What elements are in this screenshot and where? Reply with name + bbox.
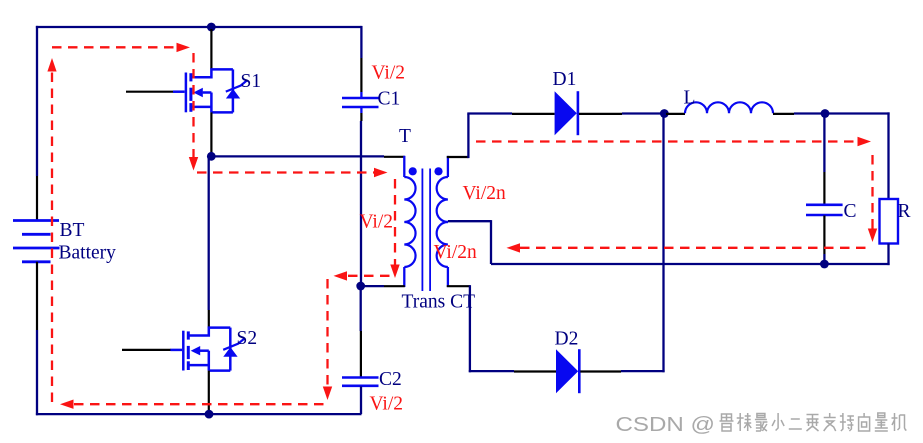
wire: S2 gate lead (black): [122, 349, 171, 351]
wire: secondary bottom lead step (black): [447, 285, 470, 287]
svg-text:D2: D2: [555, 329, 579, 350]
svg-text:S2: S2: [237, 328, 258, 349]
transformer T secondary bottom lead (blue): [447, 267, 449, 287]
current path: down beside C2 (red dashed): [326, 279, 328, 387]
current path: battery rise (red dashed): [51, 70, 53, 402]
svg-text:Vi/2n: Vi/2n: [463, 183, 506, 204]
current path arrow right (to S1): [177, 43, 191, 52]
wire: S1 gate lead (black): [126, 91, 174, 93]
current path arrow down (through R): [868, 229, 877, 243]
wire: left bus lower (navy): [36, 330, 38, 415]
current path: bottom run left (red dashed): [74, 403, 327, 405]
node: output top junction dot: [821, 109, 830, 118]
wire: top bus rail: [36, 26, 362, 28]
wire: center tap lead (navy): [448, 220, 491, 222]
transistor S1 (MOSFET with body diode): [173, 69, 247, 112]
transformer T primary winding: [404, 177, 415, 267]
svg-text:D1: D1: [553, 69, 577, 90]
capacitor C2: [342, 378, 379, 386]
wire: C branch lower (black then navy): [823, 216, 825, 255]
node: output bottom junction dot: [820, 260, 829, 269]
current path arrow down (primary bottom): [390, 265, 399, 279]
transformer T polarity dot (secondary): [434, 167, 442, 175]
wire: mid rail to transformer (black end): [384, 156, 405, 158]
wire: D2 cathode (black then navy): [580, 370, 621, 372]
transformer T secondary winding upper: [437, 177, 448, 222]
diode D1: [555, 91, 577, 135]
transformer T core lines: [421, 169, 423, 292]
current path: top run right (red dashed): [52, 46, 176, 48]
wire: left bus below battery (black): [36, 262, 38, 330]
watermark: CJK glyph approximations: [720, 413, 907, 431]
svg-text:Vi/2: Vi/2: [370, 394, 404, 415]
svg-text:S1: S1: [241, 71, 262, 92]
current path: mid run right (red dashed): [197, 171, 374, 173]
diode D2: [556, 349, 578, 393]
wire: D1 cathode (black then navy): [579, 113, 622, 115]
wire: C1 branch from top rail (navy/black/blue): [360, 26, 362, 58]
current path: secondary out run right (red dashed): [476, 140, 857, 142]
wire: secondary top lead step (black): [447, 156, 469, 158]
wire: S1 source lead (black): [210, 112, 212, 153]
wire: S2 drain lead (black): [208, 310, 210, 328]
wire: mid rail to transformer (navy): [211, 155, 384, 157]
wire: L to output node (black then navy): [773, 113, 794, 115]
capacitor C1: [342, 98, 379, 107]
svg-text:CSDN @: CSDN @: [616, 414, 716, 436]
svg-text:Vi/2: Vi/2: [372, 63, 406, 84]
inductor L: [685, 102, 773, 113]
svg-text:C2: C2: [379, 369, 402, 390]
transformer T primary bottom lead (blue): [403, 267, 405, 287]
current path arrow right (to primary): [374, 168, 388, 177]
wire: bottom bus rail: [36, 413, 362, 415]
transformer T secondary top lead (blue): [447, 156, 449, 177]
resistor R: [880, 199, 899, 244]
svg-text:L: L: [684, 88, 696, 109]
node: capacitor midpoint junction dot: [356, 282, 365, 291]
wire: output bottom rail (navy): [491, 263, 890, 265]
svg-text:C1: C1: [378, 89, 401, 110]
wire: output top rail to R (navy): [825, 112, 890, 114]
wire: S2 drain lead (navy): [208, 158, 210, 310]
wire: S2 source lead (black): [208, 371, 210, 411]
current path arrow left (to cap mid): [334, 271, 348, 280]
svg-text:Vi/2n: Vi/2n: [434, 242, 477, 263]
transistor S2 (MOSFET with body diode): [170, 328, 244, 371]
current path: down through primary (red dashed): [394, 179, 396, 265]
wire: D2 anode rail (navy then black): [469, 370, 514, 372]
battery BT plates: [13, 221, 60, 262]
current path arrow down (below S1): [189, 157, 198, 171]
svg-text:Trans CT: Trans CT: [402, 292, 476, 313]
node: bottom rail junction dot: [205, 410, 214, 419]
wire: D1 anode rail (navy then black): [467, 112, 512, 114]
wire: C1 to cap midpoint (blue stub, black, navy): [360, 108, 362, 114]
wire: left bus upper (navy): [36, 26, 38, 176]
wire: center tap drop (navy): [490, 220, 492, 264]
svg-text:BT: BT: [60, 220, 85, 241]
svg-text:R: R: [898, 201, 911, 222]
current path arrow down (beside C2): [323, 387, 332, 401]
node: half-bridge mid junction dot: [207, 152, 216, 161]
svg-text:T: T: [399, 126, 411, 147]
current path arrow left (to center tap): [507, 243, 521, 252]
current path: return run left (red dashed): [520, 247, 866, 249]
current path arrow left (to battery): [60, 400, 74, 409]
wire: primary bottom to cap midpoint (black then navy): [384, 285, 405, 287]
node: top junction dot: [207, 23, 216, 32]
wire: secondary top to D1 rail (navy): [467, 114, 469, 159]
wire: junction to L (black): [666, 113, 685, 115]
svg-text:Vi/2: Vi/2: [360, 212, 394, 233]
current path: down through S1 (red dashed): [192, 53, 194, 157]
svg-text:Battery: Battery: [59, 243, 117, 264]
transformer T secondary winding lower: [437, 222, 448, 267]
wire: R bottom (navy): [887, 244, 889, 266]
current path: down through R (red dashed): [871, 155, 873, 229]
current path arrow right (to load): [858, 137, 872, 146]
current path: short left run (red dashed): [348, 275, 390, 277]
wire: R branch down (navy): [887, 112, 889, 199]
wire: D2 to D1 junction riser (navy): [662, 114, 664, 373]
current path arrow up (battery): [47, 58, 56, 72]
transformer T primary top lead (blue): [403, 156, 405, 177]
wire: C branch upper (navy then black): [823, 114, 825, 173]
wire: D2 branch from transformer (navy): [469, 285, 471, 372]
svg-text:C: C: [844, 201, 857, 222]
wire: C2 bottom to bottom rail: [360, 386, 362, 414]
capacitor C: [806, 205, 843, 215]
wire: S1 drain lead (black): [210, 29, 212, 69]
transformer T polarity dot (primary): [409, 167, 417, 175]
wire: cap midpoint down to C2 (navy then black): [360, 286, 362, 331]
wire: left bus above battery (black): [36, 176, 38, 221]
node: D1 output junction dot: [660, 109, 669, 118]
